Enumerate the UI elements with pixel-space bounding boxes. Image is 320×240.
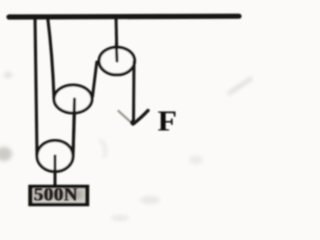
- svg-text:F: F: [158, 107, 178, 138]
